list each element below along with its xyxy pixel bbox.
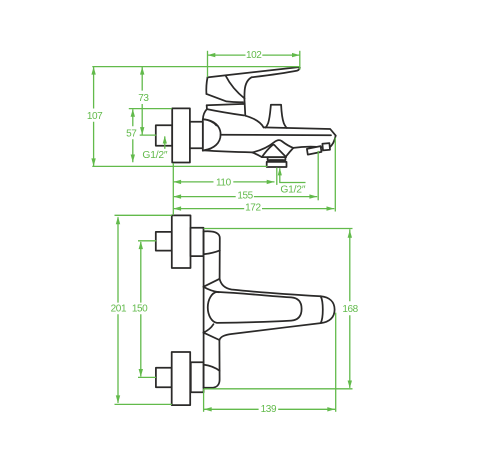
svg-text:150: 150: [132, 303, 148, 314]
side view: shower outlet step 2: [322, 143, 330, 150]
dim 102 extension right: [299, 51, 301, 70]
front view: handle capsule: [208, 292, 302, 323]
right extension from body corner: [334, 138, 336, 212]
svg-text:57: 57: [126, 129, 137, 140]
svg-text:155: 155: [237, 191, 253, 202]
side view: cartridge ring top edge: [207, 104, 246, 116]
dim 168 top extension: [204, 228, 353, 230]
svg-text:201: 201: [111, 303, 127, 314]
front view: bottom hex nut: [156, 368, 172, 387]
front view: upper junction fillet b: [203, 287, 219, 293]
front view: top connector: [191, 228, 204, 256]
front view: lower junction fillet b: [203, 324, 213, 332]
arrow 57 down: [131, 155, 135, 163]
dim 150 bottom tick: [138, 376, 156, 378]
dim 155 line: [173, 196, 317, 198]
arrow 201 up: [116, 216, 120, 224]
side view: valve end cap left edge: [202, 119, 204, 151]
svg-text:G1/2″: G1/2″: [142, 150, 168, 161]
dim 110 line: [173, 181, 274, 183]
arrow 201 down: [116, 395, 120, 403]
side view: lever handle outline: [208, 67, 300, 103]
arrow 150 down: [139, 369, 143, 377]
front view: lower junction fillet a: [203, 333, 219, 340]
svg-text:139: 139: [261, 404, 277, 415]
dim 201 top extension: [115, 214, 172, 216]
left extension line under flange: [172, 163, 174, 215]
G1/2 leader upper: [164, 136, 166, 148]
side view: aerator top ring: [268, 157, 286, 160]
side view: cartridge ring left edge: [206, 105, 208, 109]
side view: valve end cap inner arc: [204, 119, 217, 125]
side view: spout nose triangle: [262, 145, 286, 157]
front view: spout outer outline: [219, 279, 334, 340]
dim 150 top tick: [138, 240, 156, 242]
front view: top hex nut: [156, 232, 172, 251]
arrow 73 up: [140, 67, 144, 75]
side view: spout cowl hump: [252, 140, 293, 152]
svg-text:168: 168: [342, 304, 358, 315]
front view: body column left edge: [203, 231, 205, 387]
svg-text:110: 110: [216, 177, 232, 188]
side view: body top-left corner curve: [203, 109, 207, 119]
svg-text:102: 102: [246, 50, 262, 61]
dim 139 left extension: [203, 389, 205, 412]
side view: body bar right edge arc: [329, 136, 336, 148]
side view: body bottom edge right: [293, 147, 329, 148]
front view: bottom connector intersection curve: [204, 365, 220, 371]
side view: valve end cap dome arc: [204, 119, 221, 150]
dim 102 extension left: [207, 51, 209, 77]
svg-text:73: 73: [138, 93, 149, 104]
dim 57 line: [132, 109, 134, 162]
front view: spout end face arc: [321, 296, 323, 323]
arrow 102 left: [208, 53, 216, 57]
side view: aerator bottom ring: [267, 162, 287, 167]
svg-text:107: 107: [87, 111, 103, 122]
side view: body top slanted edge: [207, 109, 244, 115]
arrow 73 down: [140, 127, 144, 135]
front view: bottom connector: [191, 362, 204, 392]
arrow 168 down: [348, 381, 352, 389]
arrow 139 left: [204, 407, 212, 411]
side view: shower outlet step 1: [307, 146, 322, 155]
arrow 110 right: [267, 180, 275, 184]
arrow 57 up: [131, 109, 135, 117]
side view: body bottom edge left: [204, 150, 253, 152]
dim 107 line: [93, 67, 95, 166]
aerator centre extension: [276, 168, 278, 185]
dim 73 line: [141, 67, 143, 135]
dim 201 line: [117, 217, 119, 403]
front view: upper junction fillet a: [203, 279, 219, 287]
dim 201 bottom extension: [115, 403, 172, 405]
front view: body column top cap and right edge: [204, 231, 220, 279]
dim 73 bottom tick: [140, 134, 157, 136]
dim 57 top tick: [129, 108, 172, 110]
dim 139 line: [204, 408, 335, 410]
dim 172 line: [173, 208, 334, 210]
dim 139 right extension: [335, 313, 337, 412]
arrow 102 right: [292, 53, 300, 57]
side view: handle base bottom edge: [206, 94, 243, 102]
dim 168 line: [349, 229, 351, 388]
side view: wall hex nut: [156, 125, 172, 146]
arrow 139 right: [327, 407, 335, 411]
front view: top connector intersection curve: [204, 250, 220, 254]
side view: body rear curve to bar: [245, 116, 263, 128]
dim 107 top extension: [92, 66, 300, 68]
arrow 107 up: [91, 67, 95, 75]
front view: bottom wall flange: [172, 352, 191, 405]
side view: handle inner ridge curve: [226, 76, 245, 98]
dim 107 bottom extension: [92, 165, 267, 167]
front view: body column lower right edge and foot: [204, 340, 220, 388]
arrow G1/2 lower: [278, 168, 282, 176]
side view: handle left edge: [206, 77, 207, 94]
arrow 150 up: [139, 241, 143, 249]
side view: cowl left crevice: [252, 152, 262, 157]
side view: spout nose base line: [262, 156, 286, 158]
arrow 107 down: [91, 158, 95, 166]
side view: body bar inner line: [221, 134, 331, 137]
svg-text:G1/2″: G1/2″: [280, 184, 306, 195]
svg-text:172: 172: [245, 202, 261, 213]
arrow 155 left: [173, 194, 181, 198]
dim 150 line: [140, 242, 142, 377]
arrow 168 up: [348, 230, 352, 238]
side view: connector cylinder: [190, 122, 203, 149]
arrow 155 right: [309, 194, 317, 198]
outlet extension: [317, 151, 319, 200]
side view: diverter knob cone: [266, 105, 287, 128]
side view: aerator waist ring: [270, 160, 283, 162]
side view: wall flange: [172, 108, 190, 162]
dim 168 bottom extension: [204, 388, 353, 390]
dim 102 line: [208, 54, 300, 56]
side view: cowl right crevice: [286, 148, 294, 157]
front view: top wall flange: [172, 215, 191, 268]
G1/2 leader lower: [280, 168, 306, 182]
arrow 172 left: [173, 206, 181, 210]
arrow 172 right: [327, 206, 335, 210]
arrow G1/2 upper: [163, 136, 167, 144]
side view: body bar top edge and chamfer: [264, 127, 336, 135]
arrow 110 left: [173, 180, 181, 184]
